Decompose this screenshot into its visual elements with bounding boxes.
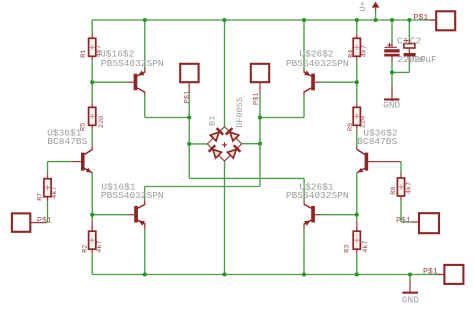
svg-text:4k7: 4k7: [96, 45, 104, 57]
svg-text:R8: R8: [390, 187, 398, 195]
svg-text:BC847BS: BC847BS: [47, 136, 87, 147]
svg-text:P$1: P$1: [396, 215, 411, 225]
svg-text:4k7: 4k7: [406, 182, 414, 194]
svg-text:R5: R5: [80, 123, 88, 131]
svg-text:BC847BS: BC847BS: [357, 136, 397, 147]
svg-text:R7: R7: [36, 193, 44, 201]
svg-text:P$1: P$1: [184, 91, 192, 104]
svg-text:GND: GND: [402, 294, 419, 305]
svg-text:P$1: P$1: [423, 267, 438, 277]
svg-text:P$1: P$1: [253, 92, 261, 105]
svg-text:4k7: 4k7: [96, 241, 104, 253]
svg-text:R4: R4: [347, 50, 355, 58]
svg-text:PBSS4032SPN: PBSS4032SPN: [101, 58, 164, 69]
svg-text:4k7: 4k7: [361, 45, 369, 57]
svg-text:220: 220: [98, 116, 106, 128]
svg-text:R2: R2: [81, 245, 89, 253]
svg-text:P$1: P$1: [37, 215, 52, 225]
svg-text:U+: U+: [358, 1, 368, 11]
svg-text:C1: C1: [397, 35, 409, 46]
svg-text:PBSS4032SPN: PBSS4032SPN: [286, 58, 349, 69]
svg-text:PBSS4032SPN: PBSS4032SPN: [101, 190, 164, 201]
svg-text:R3: R3: [344, 245, 352, 253]
svg-text:220: 220: [360, 116, 368, 128]
svg-text:DF005S: DF005S: [235, 97, 245, 128]
svg-text:4k7: 4k7: [51, 187, 59, 199]
svg-text:C2: C2: [410, 35, 422, 46]
svg-text:R1: R1: [80, 50, 88, 58]
svg-text:R6: R6: [347, 123, 355, 131]
svg-text:GND: GND: [383, 99, 400, 110]
svg-text:B1: B1: [207, 116, 217, 126]
svg-text:4k7: 4k7: [362, 241, 370, 253]
svg-text:P$1: P$1: [414, 12, 429, 22]
svg-text:220uF: 220uF: [408, 54, 437, 65]
svg-text:PBSS4032SPN: PBSS4032SPN: [286, 190, 349, 201]
